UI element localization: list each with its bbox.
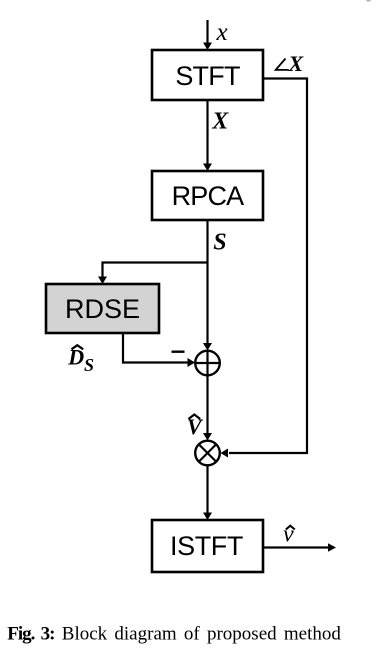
wire: RPCA down to adder (203, 220, 212, 351)
svg-text:X: X (211, 109, 229, 135)
svg-text:V: V (187, 414, 204, 439)
svg-text:S: S (213, 229, 226, 255)
label angle X (phase of X) (276, 51, 305, 76)
node V hat (enhanced magnitude label) (187, 414, 204, 439)
wire: phase feedback from STFT to multiplier (221, 79, 308, 458)
node v hat (output signal label) (283, 522, 295, 548)
wire: STFT to RPCA arrow (203, 100, 212, 171)
stray mark top-right (367, 0, 371, 2)
block RDSE (46, 284, 159, 333)
svg-text:Fig. 3: Block diagram of propo: Fig. 3: Block diagram of proposed method (7, 624, 341, 645)
wire: branch from S to RDSE (98, 263, 208, 285)
svg-text:v: v (283, 522, 294, 548)
svg-text:D: D (67, 345, 84, 370)
wire: RDSE output to adder (123, 333, 195, 367)
block ISTFT (152, 520, 263, 572)
wire: output arrow from ISTFT (264, 543, 337, 552)
multiplier (phase recombination) (195, 441, 220, 466)
svg-text:RPCA: RPCA (172, 181, 245, 211)
node D_S hat (noise estimate label) (67, 345, 94, 375)
adder (summing junction) (195, 351, 220, 376)
svg-text:X: X (288, 51, 305, 76)
minus sign at adder input (172, 351, 185, 353)
svg-text:ISTFT: ISTFT (170, 531, 243, 561)
svg-text:x: x (216, 19, 228, 46)
svg-text:RDSE: RDSE (65, 294, 140, 324)
wire: adder to multiplier (203, 375, 212, 440)
block RPCA (152, 171, 263, 220)
svg-text:S: S (84, 355, 94, 375)
wire: multiplier to ISTFT (203, 465, 212, 520)
wire: input arrow into STFT (203, 20, 212, 50)
block STFT (152, 50, 263, 100)
svg-text:STFT: STFT (175, 61, 240, 91)
